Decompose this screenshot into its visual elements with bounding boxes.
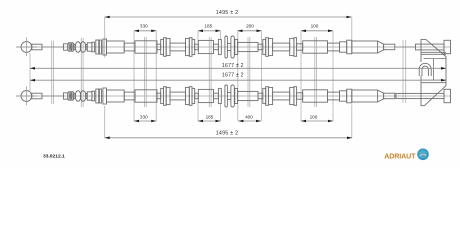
grommet bellows 2 (top) [80, 42, 86, 53]
ball crosshair horizontal (bottom) [16, 95, 37, 97]
tube (bottom) [297, 93, 303, 99]
centerline (top cable) [16, 46, 451, 48]
break mark pair x=51.7 [52, 41, 54, 105]
ball end (top cable) [21, 42, 32, 53]
grommet bellows 2 (bottom) [80, 91, 86, 102]
tube (top) [214, 44, 219, 50]
inner cable (bottom) [42, 95, 64, 97]
grommet band (bottom) [92, 91, 95, 101]
dimension 1495 bottom [105, 130, 352, 139]
dimension 200 top [238, 24, 262, 32]
tube (top) [157, 44, 161, 50]
bracket cable hook arch [419, 63, 431, 76]
sheath tube (bottom) [124, 92, 135, 100]
svg-text:330: 330 [140, 24, 148, 29]
ball crosshair vertical (top) [25, 37, 27, 56]
svg-text:400: 400 [245, 115, 253, 120]
grommet small bellows (top) [68, 43, 74, 52]
end tube (top) [384, 44, 395, 50]
washer (top) [192, 39, 195, 54]
dimension 100 bottom [301, 115, 333, 123]
dimension 400 bottom [238, 115, 261, 123]
dimension 330 top [134, 24, 156, 32]
sheath cylinder 100 (top) [303, 41, 328, 53]
sheath tube (top) [124, 43, 135, 51]
svg-text:185: 185 [204, 24, 212, 29]
sheath cylinder 100 (bottom) [303, 90, 328, 102]
threaded rod (top) [416, 44, 445, 50]
extension line x=301.0 [300, 31, 302, 121]
washer (bottom) [161, 88, 164, 103]
flange pair (top) [266, 38, 273, 57]
sheath cap (top) [64, 44, 68, 50]
sheath stop flange (bottom) [103, 88, 107, 104]
svg-text:100: 100 [311, 24, 319, 29]
extension line x=134.0 [133, 31, 135, 121]
svg-text:100: 100 [310, 115, 318, 120]
inner cable (top) [42, 46, 64, 48]
flange pair (top) [290, 38, 297, 57]
dimension 185 bottom [198, 115, 221, 123]
washer (top) [263, 39, 266, 54]
sheath stop flange (top) [103, 39, 107, 55]
adjuster body (bottom) [170, 92, 186, 100]
tube (bottom) [195, 93, 199, 99]
sheath tube (bottom) [328, 92, 340, 100]
sheath cylinder mid (top) [238, 42, 258, 51]
extension line x=261.5 [261, 31, 263, 121]
end nut (bottom) [444, 89, 451, 102]
equalizer bracket outline [421, 39, 446, 105]
washer (top) [161, 39, 164, 54]
grommet small bellows (bottom) [68, 92, 74, 101]
break mark pair x=314.8 [315, 37, 317, 107]
washer (bottom) [235, 88, 238, 103]
end collar (top) [347, 40, 352, 54]
sheath cylinder (top) [107, 41, 125, 53]
washer (bottom) [218, 88, 221, 103]
sheath cylinder 185 (top) [198, 40, 213, 53]
ball crosshair vertical (bottom) [25, 86, 27, 105]
dimension 100 top [301, 24, 333, 32]
dimension 330 bottom [134, 115, 156, 123]
svg-text:1677 ± 2: 1677 ± 2 [222, 73, 244, 79]
break mark pair x=403.0 [403, 40, 406, 103]
grommet cap (top) [87, 43, 92, 51]
tube (top) [195, 44, 199, 50]
end tube (bottom) [384, 93, 395, 99]
inner cable right (bottom) [395, 95, 396, 97]
extension line 1677 left [29, 53, 31, 92]
grommet bellows 1 (top) [75, 42, 81, 53]
svg-text:200: 200 [246, 24, 254, 29]
extension line x=220.5 [220, 31, 222, 39]
sheath cylinder 330 (top) [135, 41, 157, 53]
flange pair (bottom) [266, 87, 273, 106]
extension line 1495 top-right [351, 17, 353, 41]
break mark pair x=209.3 [209, 37, 211, 107]
guide spool (top) [225, 36, 234, 58]
bracket bottom shelf [421, 80, 446, 83]
washer (bottom) [192, 88, 195, 103]
svg-text:1495 ± 2: 1495 ± 2 [216, 130, 239, 136]
sheath cylinder 185 (bottom) [198, 89, 213, 102]
extension line x=237.8 [237, 31, 239, 121]
grommet band (top) [92, 42, 95, 52]
svg-text:ADRIAUT: ADRIAUT [384, 153, 416, 161]
washer (top) [218, 39, 221, 54]
flange pair (top) [186, 38, 193, 57]
end cylinder (top) [352, 41, 378, 53]
dimension 1677 bottom cable [30, 73, 446, 82]
extension line x=220.5 [220, 104, 222, 121]
washer (top) [99, 40, 101, 54]
grommet neck (bottom) [74, 93, 76, 98]
inner cable right (top) [395, 46, 416, 48]
flange pair (bottom) [186, 87, 193, 106]
extension line 1495 top-left [104, 17, 106, 58]
tube (top) [258, 44, 263, 50]
break mark pair x=144.4 [144, 37, 146, 107]
tube (bottom) [157, 93, 161, 99]
washer (top) [96, 40, 99, 54]
grommet neck 2 (bottom) [86, 93, 88, 98]
extension line x=156.2 [155, 31, 157, 121]
grommet neck 2 (top) [86, 44, 88, 49]
adjuster body (bottom) [273, 92, 290, 100]
ball shank (bottom) [32, 93, 42, 99]
extension line x=198.0 [197, 102, 199, 121]
flange pair (top) [164, 38, 171, 57]
grommet neck (top) [74, 44, 76, 49]
bracket bend line [432, 59, 434, 81]
washer (bottom) [96, 89, 99, 103]
svg-text:185: 185 [206, 115, 214, 120]
ball end (bottom cable) [21, 91, 32, 102]
svg-text:33.0212.1: 33.0212.1 [43, 153, 65, 159]
guide spool (bottom) [225, 85, 234, 107]
dimension 1677 top cable [30, 63, 446, 69]
end nut (top) [444, 40, 451, 53]
sheath cylinder 330 (bottom) [135, 90, 157, 102]
tube (bottom) [214, 93, 219, 99]
adjuster body (top) [273, 43, 290, 51]
grommet cap (bottom) [87, 92, 92, 100]
extension line x=333.0 [332, 31, 334, 121]
sheath cylinder (bottom) [107, 90, 125, 102]
extension line 1495 bottom-left [104, 106, 106, 138]
tube (top) [297, 44, 303, 50]
flange pair (bottom) [164, 87, 171, 106]
sheath tube (top) [328, 43, 340, 51]
bracket top shelf [421, 52, 446, 58]
tube (bottom) [258, 93, 263, 99]
sheath cap (bottom) [64, 93, 68, 99]
sheath section (bottom) [340, 91, 347, 101]
grommet bellows 1 (bottom) [75, 91, 81, 102]
sheath section (top) [340, 42, 347, 52]
ball crosshair horizontal (top) [16, 46, 37, 48]
threaded rod (bottom) [396, 93, 444, 98]
extension line 1495 bottom-right [351, 105, 353, 138]
taper (top) [378, 41, 384, 53]
end collar (bottom) [347, 89, 352, 103]
washer (bottom) [99, 89, 101, 103]
end cylinder (bottom) [352, 90, 378, 102]
washer (top) [235, 39, 238, 54]
dimension 185 top [198, 24, 221, 32]
centerline (bottom cable) [16, 95, 451, 97]
taper (bottom) [378, 90, 384, 102]
ADRIAUTO logo globe [417, 149, 429, 161]
sheath cylinder mid (bottom) [238, 91, 258, 100]
svg-text:330: 330 [140, 115, 148, 120]
svg-text:1677 ± 2: 1677 ± 2 [222, 63, 244, 69]
break mark pair x=81.3 [81, 38, 83, 107]
flange pair (bottom) [290, 87, 297, 106]
ball shank (top) [32, 44, 42, 50]
dimension 1495 top [105, 10, 352, 18]
extension line x=198.0 [197, 31, 199, 42]
break mark pair x=248.0 [248, 37, 250, 107]
washer (bottom) [263, 88, 266, 103]
adjuster body (top) [170, 43, 186, 51]
svg-text:1495 ± 2: 1495 ± 2 [216, 10, 239, 16]
